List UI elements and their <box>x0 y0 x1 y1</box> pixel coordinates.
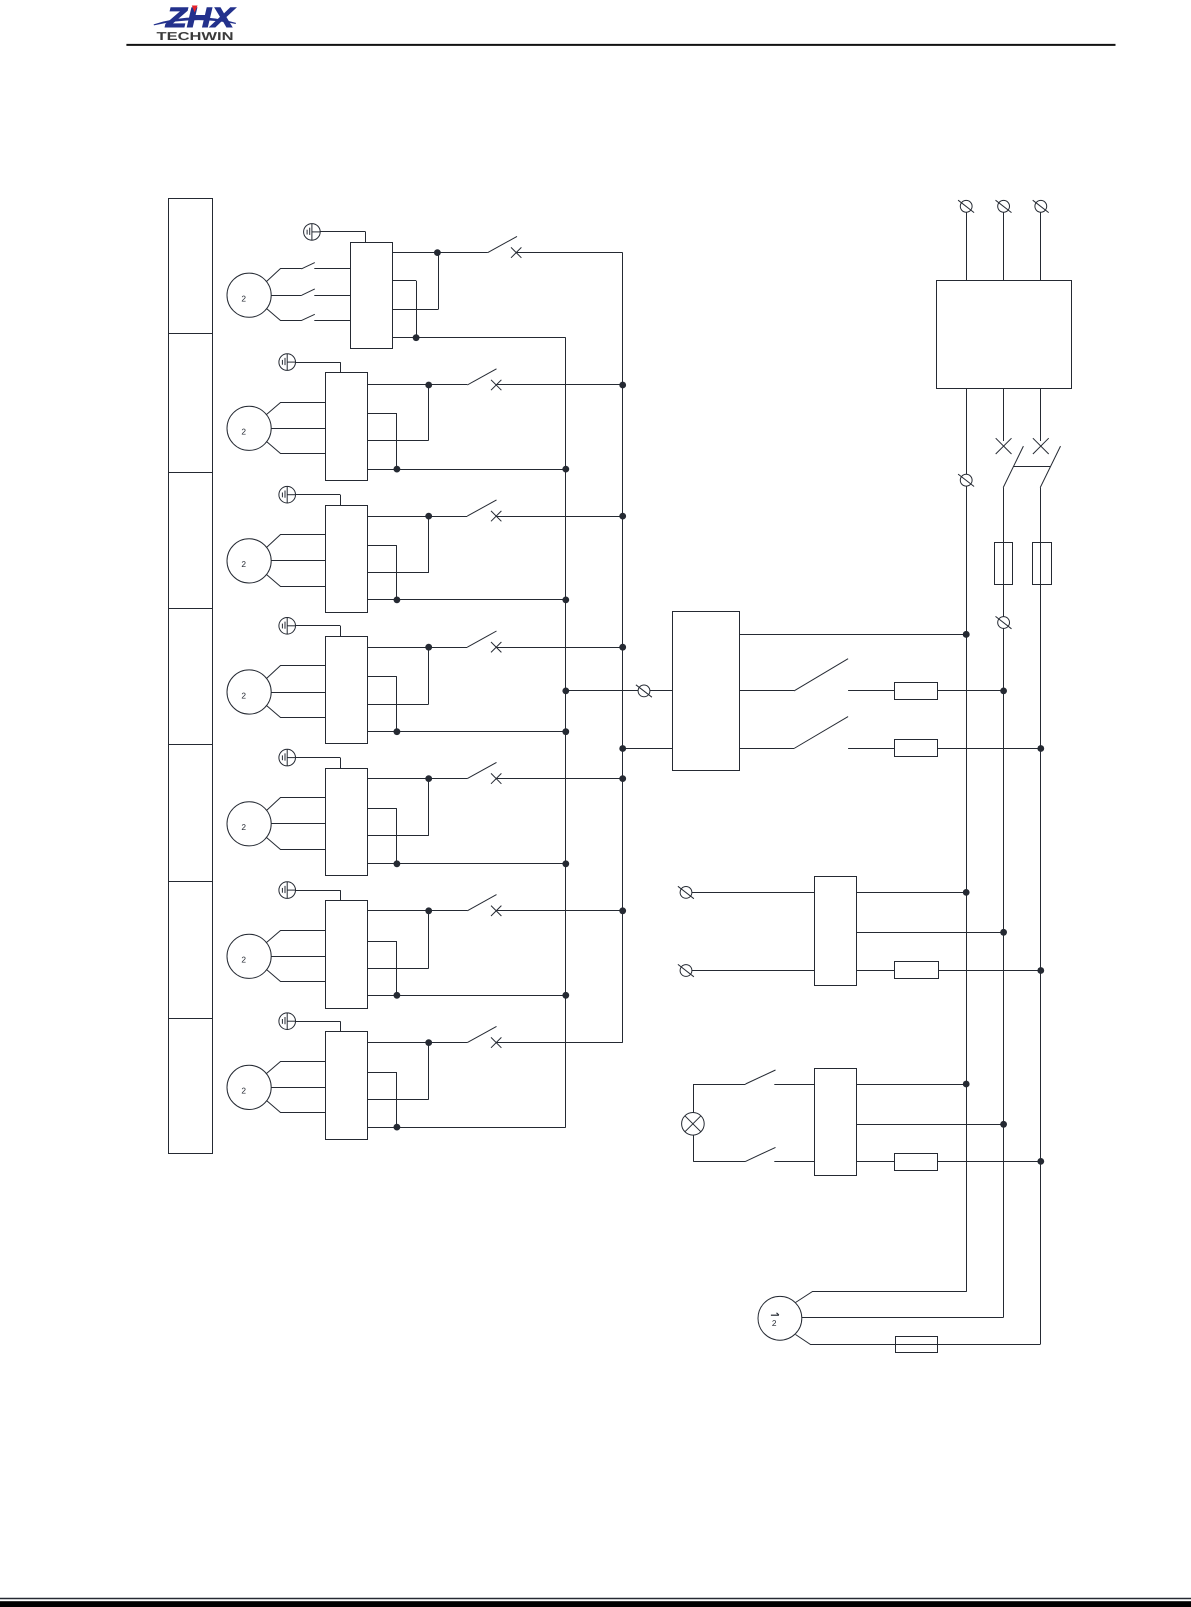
contactor K4 <box>326 637 368 744</box>
node J4c <box>619 644 626 651</box>
motor M6 <box>227 934 271 978</box>
node J5b <box>394 860 401 867</box>
terminal T2a <box>996 616 1012 628</box>
wire connector to contactor <box>296 495 341 506</box>
node J9c <box>1037 967 1044 974</box>
connector X7 <box>279 1013 296 1030</box>
svg-text:2: 2 <box>241 955 246 965</box>
node J2c <box>619 382 626 389</box>
wire phase 3 upper <box>1040 388 1042 441</box>
wire breaker feed <box>367 910 467 912</box>
wire aux out3 <box>367 1043 428 1100</box>
logo ZHX Techwin <box>154 2 237 43</box>
wire breaker feed <box>393 252 488 254</box>
wire connector to contactor <box>320 232 365 243</box>
wire K9 out1 <box>857 892 967 894</box>
wire K9 out3 <box>857 970 895 972</box>
wire bottom out <box>393 337 566 339</box>
svg-text:2: 2 <box>241 427 246 437</box>
connector X5 <box>279 749 296 766</box>
switch S8b <box>794 717 848 749</box>
motor M1 <box>227 273 271 317</box>
wire K10 out1 <box>857 1084 967 1086</box>
breaker Q1 <box>488 236 522 257</box>
node J3d <box>562 597 569 604</box>
wire breaker feed <box>367 1042 467 1044</box>
wire motor leads <box>267 798 326 850</box>
connector X1 <box>304 224 321 241</box>
wire bottom out <box>367 731 566 733</box>
motor M4 <box>227 670 271 714</box>
node J3a <box>425 513 432 520</box>
wire supply drop <box>1003 212 1005 281</box>
node J8b <box>619 745 626 752</box>
wire K9 in B <box>692 970 814 972</box>
node J2b <box>394 466 401 473</box>
footer band <box>0 1601 1191 1607</box>
fuse FU10 <box>895 1154 938 1171</box>
fuse FU8a <box>895 683 938 700</box>
wire K9 out2 <box>857 932 1004 934</box>
node J5c <box>619 775 626 782</box>
wire breaker to bus <box>496 384 623 386</box>
node J7b <box>394 1124 401 1131</box>
wire K10 out2 <box>857 1124 1004 1126</box>
control unit U1 <box>937 281 1072 389</box>
wire K8 mid to bus <box>938 690 1004 692</box>
wire K8 input A <box>566 690 672 692</box>
node J8c <box>963 631 970 638</box>
wire phase 3 mid <box>1040 488 1042 1345</box>
svg-text:2: 2 <box>241 294 246 304</box>
contactor K6 <box>326 901 368 1009</box>
node J2d <box>562 466 569 473</box>
wire bottom out <box>367 863 566 865</box>
wire K10 in top <box>693 1084 745 1086</box>
wire aux out2 <box>393 281 417 338</box>
wire connector to contactor <box>296 890 341 901</box>
fuse FU8b <box>895 740 938 757</box>
contactor K2 <box>326 373 368 481</box>
node J6b <box>394 992 401 999</box>
node J1a <box>434 249 441 256</box>
terminal T9a <box>678 886 694 898</box>
node J6a <box>425 907 432 914</box>
wire K10 out3 to bus <box>938 1161 1041 1163</box>
node J1a <box>963 631 970 638</box>
wire bottom out <box>367 995 566 997</box>
wire K8 out bot <box>739 748 794 750</box>
wire K9 in A <box>692 892 814 894</box>
switch S10a <box>746 1070 776 1084</box>
terminal L3 <box>1033 200 1049 212</box>
switch blade Q2 <box>1003 446 1023 488</box>
contactor K5 <box>326 769 368 876</box>
motor M2 <box>227 406 271 450</box>
wire breaker feed <box>367 647 467 649</box>
wire connector to contactor <box>296 626 341 637</box>
terminal strip X0 <box>169 199 214 1154</box>
footer rule <box>0 1598 1191 1600</box>
breaker Q4 <box>467 631 501 652</box>
connector X6 <box>279 882 296 899</box>
breaker Q6 <box>467 895 501 916</box>
wire bottom out <box>367 1127 566 1129</box>
wire bottom out <box>367 599 566 601</box>
fuse FU9 <box>895 962 939 979</box>
svg-text:2: 2 <box>241 690 246 700</box>
breaker Q5 <box>467 762 501 783</box>
wire K8 out mid <box>739 690 794 692</box>
wire K10 out3 <box>857 1161 895 1163</box>
node J3c <box>619 513 626 520</box>
node J6c <box>619 907 626 914</box>
fuse FU11 <box>896 1337 938 1353</box>
wire motor leads <box>267 1062 326 1113</box>
wire motor leads <box>267 263 351 321</box>
wire breaker to bus <box>496 1042 623 1044</box>
wire aux out2 <box>367 809 397 864</box>
wire aux out2 <box>367 677 397 732</box>
terminal T9b <box>678 964 694 976</box>
wire K10 in bottom <box>693 1161 745 1163</box>
breaker Q2 <box>467 369 501 390</box>
fuse FU3 <box>1033 543 1052 585</box>
wire aux out2 <box>367 941 397 995</box>
node J8d <box>1000 688 1007 695</box>
node J5a <box>425 775 432 782</box>
node J2a <box>425 382 432 389</box>
contact X2 <box>996 438 1012 454</box>
node J10c <box>1037 1158 1044 1165</box>
svg-text:2: 2 <box>772 1318 777 1328</box>
wire aux out3 <box>393 253 439 310</box>
wire motor leads <box>267 535 326 587</box>
lamp HL1 <box>682 1113 705 1136</box>
switch blade Q3 <box>1040 446 1060 488</box>
wire lamp riser bottom <box>693 1135 695 1161</box>
wire K8 bot to bus <box>938 748 1041 750</box>
wire K8 mid link <box>848 690 895 692</box>
wire breaker to bus <box>516 252 623 254</box>
wire supply drop <box>1040 212 1042 281</box>
wire phase 1 <box>966 388 968 1292</box>
contactor K3 <box>326 506 368 613</box>
wire aux out3 <box>367 911 428 969</box>
svg-text:2: 2 <box>241 559 246 569</box>
wire M8 lead 2 <box>802 1317 1004 1319</box>
switch S8a <box>794 659 848 691</box>
wire M8 lead 1 <box>796 1292 967 1303</box>
motor M3 <box>227 539 271 583</box>
terminal T8a <box>636 685 652 697</box>
node J9b <box>1000 929 1007 936</box>
wire K8 bot link <box>848 748 895 750</box>
terminal L2 <box>996 200 1012 212</box>
connector X4 <box>279 618 296 635</box>
bus wire right <box>622 253 624 1043</box>
wire aux out3 <box>367 385 428 441</box>
node J1b <box>413 334 420 341</box>
relay block K9 <box>815 877 857 986</box>
wire S10b to K10 <box>774 1161 814 1163</box>
terminal L1 <box>958 200 974 212</box>
wire K8 input B <box>623 748 672 750</box>
node J9a <box>963 889 970 896</box>
node J7a <box>425 1039 432 1046</box>
wire motor leads <box>267 666 326 718</box>
wire M8 lead 3 <box>796 1335 1041 1345</box>
wire connector to contactor <box>296 758 341 769</box>
contactor K7 <box>326 1032 368 1140</box>
relay block K8 <box>673 612 740 771</box>
wire aux out3 <box>367 647 428 704</box>
switch S10b <box>746 1147 776 1161</box>
switch link <box>1014 466 1051 468</box>
wire aux out2 <box>367 546 397 600</box>
svg-text:TECHWIN: TECHWIN <box>157 31 234 43</box>
node J8a <box>562 688 569 695</box>
wire breaker to bus <box>496 778 623 780</box>
motor M5 <box>227 802 271 846</box>
wire breaker to bus <box>496 647 623 649</box>
contactor K1 <box>351 243 393 349</box>
wire connector to contactor <box>296 362 341 373</box>
wire connector to contactor <box>296 1021 341 1032</box>
wire bottom out <box>367 469 566 471</box>
wire phase 2 upper <box>1003 388 1005 441</box>
motor M8 <box>758 1296 802 1340</box>
wire motor leads <box>267 931 326 982</box>
wire breaker to bus <box>496 910 623 912</box>
contact X3 <box>1033 438 1049 454</box>
wire supply drop <box>966 212 968 281</box>
node J4b <box>394 728 401 735</box>
motor M7 <box>227 1065 271 1109</box>
header rule <box>126 44 1115 46</box>
breaker Q7 <box>467 1026 501 1047</box>
wire aux out3 <box>367 516 428 573</box>
wire breaker to bus <box>496 516 623 518</box>
svg-text:ZHX: ZHX <box>165 2 237 33</box>
wire aux out2 <box>367 1072 397 1127</box>
breaker Q3 <box>467 500 501 521</box>
node J5d <box>562 860 569 867</box>
node J4d <box>562 728 569 735</box>
wire motor leads <box>267 403 326 454</box>
wire K9 out3 to bus <box>938 970 1041 972</box>
wire lamp riser top <box>693 1084 695 1113</box>
node J10b <box>1000 1121 1007 1128</box>
terminal T1a <box>958 474 974 486</box>
node J8e <box>1037 745 1044 752</box>
fuse FU2 <box>995 543 1013 585</box>
wire S10a to K10 <box>774 1084 814 1086</box>
node J10a <box>963 1081 970 1088</box>
wire breaker feed <box>367 384 467 386</box>
wire aux out2 <box>367 413 397 469</box>
relay block K10 <box>815 1069 857 1176</box>
node J3b <box>394 597 401 604</box>
wire breaker feed <box>367 516 467 518</box>
wire breaker feed <box>367 778 467 780</box>
svg-text:2: 2 <box>241 1086 246 1096</box>
node J4a <box>425 644 432 651</box>
svg-text:2: 2 <box>241 822 246 832</box>
wire phase 2 mid <box>1003 488 1005 1318</box>
node J6d <box>562 992 569 999</box>
connector X3 <box>279 486 296 503</box>
wire aux out3 <box>367 779 428 836</box>
bus wire left <box>565 338 567 1127</box>
wire K8 out top <box>739 634 966 636</box>
connector X2 <box>279 354 296 371</box>
